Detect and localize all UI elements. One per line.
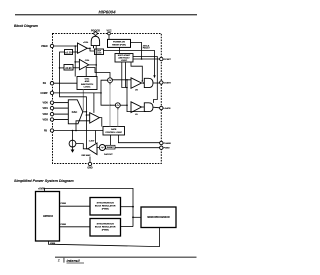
wire: oscillator output to upper driver	[112, 79, 131, 81]
wire: error amp output to gate control logic	[99, 118, 101, 127]
comparator +10%	[78, 42, 89, 54]
wire: x1.10 output to +10% comparator	[73, 51, 78, 53]
svg-text:OCSET: OCSET	[164, 59, 172, 61]
pin COMP (left)	[40, 91, 53, 95]
wire: SS pin into logic	[54, 82, 77, 84]
wire: DAC output (DACOUT)	[83, 111, 87, 113]
svg-text:INHIBIT: INHIBIT	[107, 147, 115, 149]
svg-text:SYNCHRONOUS: SYNCHRONOUS	[97, 203, 115, 205]
footer divider bar	[63, 258, 66, 263]
box: OVP comparator (x1.15)	[95, 49, 104, 55]
error amp E/A	[90, 113, 100, 123]
pin UGATE (right)	[160, 81, 172, 85]
wire: VID pins to DAC	[54, 103, 69, 120]
wire: VSEN return path	[48, 228, 159, 247]
wire: +10% comparator output to PGOOD gate	[87, 46, 94, 51]
wire: VSEN to comparators	[54, 45, 80, 76]
wire: regulator outputs to microprocessor	[121, 207, 142, 227]
svg-text:BUCK REGULATOR: BUCK REGULATOR	[95, 205, 116, 208]
svg-text:LGATE: LGATE	[164, 107, 172, 110]
wire: +5VIN rail	[45, 188, 134, 226]
svg-text:SYNCHRONOUS: SYNCHRONOUS	[97, 224, 115, 226]
HIP6004 controller box	[36, 192, 60, 242]
svg-text:DAC: DAC	[72, 111, 78, 114]
svg-text:(PWM): (PWM)	[102, 230, 109, 232]
wire: LGATE driver output	[142, 106, 160, 109]
svg-text:PWM: PWM	[61, 203, 67, 205]
svg-text:AND: AND	[85, 80, 90, 83]
IC boundary dashed box	[53, 34, 162, 164]
wire: GND stub	[89, 157, 91, 163]
pin LGATE (right)	[160, 106, 172, 110]
wire: oscillator down to gate control logic	[109, 83, 111, 127]
wire: FB line branch down to reference buffer	[95, 131, 97, 144]
svg-text:(PWM): (PWM)	[102, 209, 109, 211]
svg-text:x1.15: x1.15	[97, 53, 102, 55]
wire: -10% comparator output up to PGOOD gate	[89, 46, 97, 77]
wire: POR down to soft-start logic	[119, 47, 121, 53]
svg-text:FAULT: FAULT	[143, 47, 151, 50]
wire: FB pin to error amp and gate logic	[54, 121, 103, 132]
svg-text:SAWTOOTH: SAWTOOTH	[81, 83, 94, 86]
svg-text:PGND: PGND	[164, 148, 171, 150]
svg-text:x0.90: x0.90	[65, 67, 72, 70]
upper driver AND gate	[144, 78, 153, 87]
DAC (TTL D/A converter)	[68, 100, 83, 124]
wire: sawtooth output down from logic box	[82, 90, 84, 111]
pin GND (bottom)	[87, 162, 93, 169]
reference buffer (1.26V)	[82, 141, 98, 157]
box: oscillator / soft-start and fault logic (4 lines)	[77, 77, 97, 90]
footer rule	[55, 257, 197, 258]
PWM comparator circle (lower)	[115, 103, 120, 110]
svg-text:GATE: GATE	[111, 128, 117, 131]
pin VSEN (left)	[41, 44, 54, 48]
pin VID0 (left)	[42, 101, 53, 105]
svg-text:COMP: COMP	[40, 92, 48, 95]
pin FB (left)	[44, 129, 54, 133]
pin PGOOD (top)	[91, 29, 100, 35]
wire: oscillator rail	[86, 68, 110, 78]
svg-text:MICROPROCESSOR: MICROPROCESSOR	[147, 217, 170, 219]
pin VID3 (left)	[42, 118, 53, 122]
microprocessor box	[141, 207, 176, 228]
svg-text:VID2: VID2	[42, 113, 48, 116]
svg-text:POWER-ON: POWER-ON	[113, 42, 125, 44]
svg-text:+5VIN: +5VIN	[38, 188, 45, 191]
svg-text:1.26V: 1.26V	[89, 141, 95, 143]
svg-text:2: 2	[58, 259, 60, 263]
current source 30uA (FB pin)	[69, 131, 76, 153]
svg-text:intersil: intersil	[67, 258, 81, 263]
svg-text:Block Diagram: Block Diagram	[14, 24, 38, 28]
pin SS (left)	[43, 82, 54, 86]
oscillator symbol (PWM comparator circle)	[108, 78, 113, 85]
svg-text:BUCK REGULATOR: BUCK REGULATOR	[95, 226, 116, 229]
wire: VCC pin to POR	[108, 35, 110, 39]
wire: oscillator left branch to COMP line	[100, 80, 115, 106]
svg-text:+10%: +10%	[83, 42, 88, 44]
svg-text:LOGIC: LOGIC	[121, 60, 128, 62]
svg-text:UGATE: UGATE	[164, 82, 172, 85]
svg-text:PWM: PWM	[61, 224, 67, 226]
box: inhibit (right of summing node)	[106, 145, 115, 149]
box: POWER-ON RESET (POR)	[108, 39, 131, 47]
footer intersil logo	[67, 258, 85, 263]
pin OCSET (right)	[160, 57, 172, 61]
page background	[0, 0, 213, 275]
wire: OVP output to over-current comparator arrow	[104, 51, 156, 79]
svg-text:PHASE: PHASE	[164, 142, 172, 145]
lower gate driver amplifier	[131, 102, 142, 116]
wire: soft-start logic to OCSET pin	[133, 58, 160, 60]
svg-text:VID0: VID0	[42, 102, 48, 105]
svg-text:DACOUT: DACOUT	[104, 153, 113, 156]
summing node circle at reference buffer input	[99, 145, 105, 151]
box: gate control logic	[103, 127, 125, 136]
box: x0.90 scaler	[64, 65, 73, 71]
AND gate U1 (PGOOD window detector output gate)	[91, 35, 99, 48]
svg-text:VID1: VID1	[42, 107, 48, 110]
lower driver AND gate	[144, 103, 153, 112]
wire: gate logic outputs to PHASE and PGND pins	[111, 135, 160, 148]
svg-text:HIP6004: HIP6004	[98, 10, 116, 15]
svg-text:SS: SS	[43, 82, 47, 85]
svg-text:VID3: VID3	[42, 119, 48, 122]
svg-text:HIP6004: HIP6004	[43, 215, 53, 218]
pin VID2 (left)	[42, 112, 53, 116]
pin VID1 (left)	[42, 106, 53, 110]
wire: COMP pin to error amp	[54, 92, 101, 94]
svg-text:GND: GND	[87, 167, 93, 170]
pin PHASE (right)	[160, 141, 172, 145]
svg-text:VSEN: VSEN	[50, 243, 56, 245]
box: x1.10 scaler	[65, 50, 73, 55]
svg-text:x1.10: x1.10	[65, 51, 72, 54]
header rule	[15, 14, 197, 15]
svg-text:VSEN: VSEN	[41, 45, 48, 48]
pin PGND (right)	[160, 146, 171, 150]
lower synchronous buck regulator box	[90, 219, 121, 237]
svg-text:Simplified Power System Diagra: Simplified Power System Diagram	[14, 179, 74, 183]
comparator -10%	[79, 59, 89, 69]
wire: DAC reference bus to x1.10 / x0.90	[59, 52, 90, 149]
wire: PWM comparator connections	[118, 79, 146, 127]
upper gate driver amplifier	[131, 78, 142, 92]
wire: reference buffer loop	[76, 144, 99, 149]
svg-text:REF AMP: REF AMP	[82, 154, 92, 157]
wire: POR to OCSET current source	[131, 43, 151, 60]
pin VCC (top)	[106, 29, 111, 35]
upper synchronous buck regulator box	[90, 198, 121, 216]
svg-text:FB: FB	[44, 130, 47, 133]
wire: drive 1 to upper regulator	[60, 203, 91, 206]
wire: soft-start logic upper output to lower driver gate	[133, 57, 157, 103]
box: SOFT-START AND FAULT LOGIC	[115, 54, 133, 63]
wire: UGATE driver output	[142, 82, 160, 84]
svg-text:RESET (POR): RESET (POR)	[112, 45, 126, 47]
wire: x0.90 output to -10% comparator	[73, 67, 79, 69]
svg-text:CONTROL LOGIC: CONTROL LOGIC	[105, 132, 122, 134]
wire: drive 2 to lower regulator	[60, 224, 91, 227]
svg-text:LOGIC: LOGIC	[84, 86, 91, 88]
wire: soft-start logic lower outputs down	[122, 63, 143, 88]
svg-text:-10%: -10%	[85, 60, 90, 62]
